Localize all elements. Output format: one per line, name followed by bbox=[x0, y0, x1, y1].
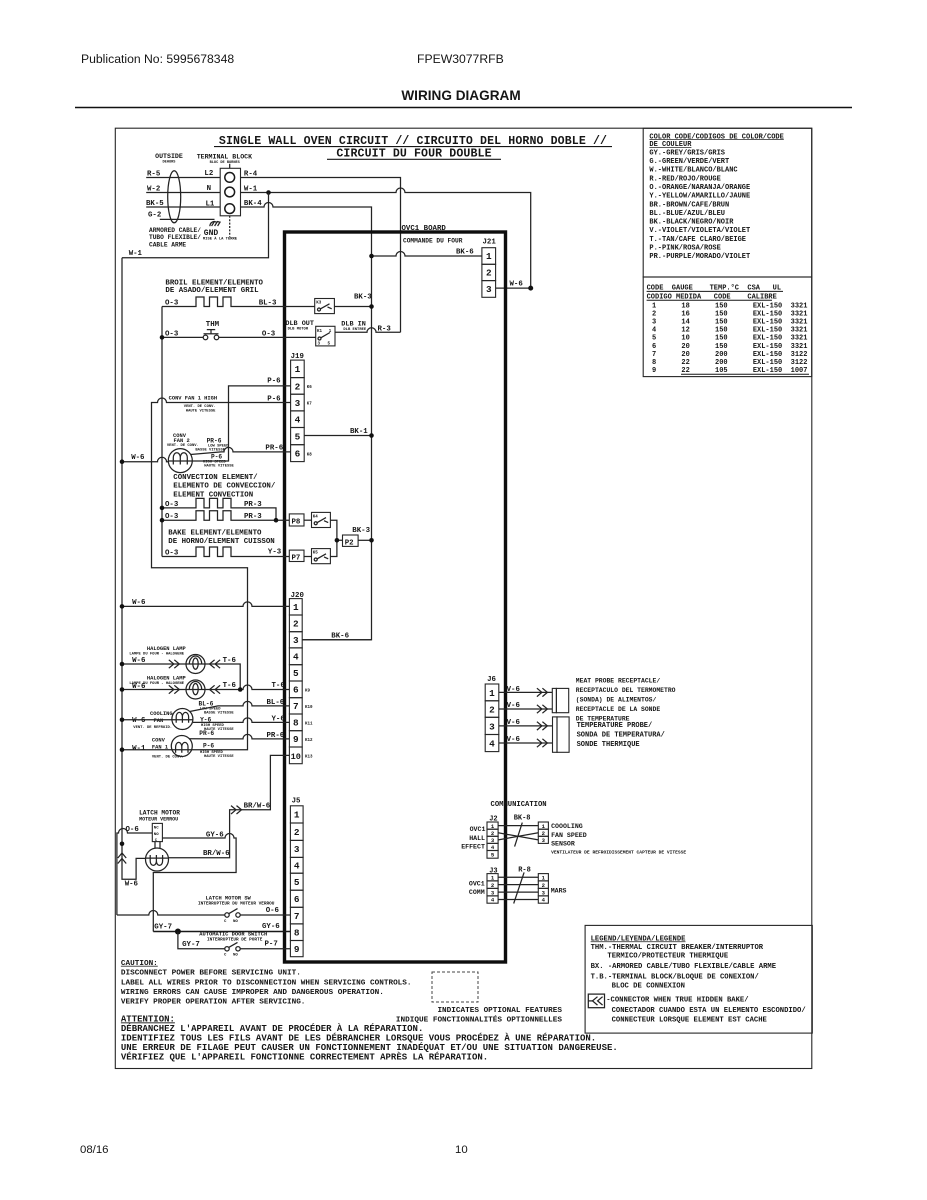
svg-text:K13: K13 bbox=[305, 756, 313, 760]
svg-text:R-8: R-8 bbox=[518, 866, 531, 874]
svg-text:HALOGEN LAMP: HALOGEN LAMP bbox=[147, 676, 186, 682]
J2 wires crossed bbox=[498, 825, 538, 827]
svg-text:HAUTE VITESSE: HAUTE VITESSE bbox=[204, 755, 234, 759]
wire P7 to K5 bbox=[304, 556, 312, 558]
MARS connector bbox=[538, 874, 548, 904]
motor latch bbox=[146, 848, 169, 871]
svg-text:LATCH MOTOR: LATCH MOTOR bbox=[139, 809, 180, 816]
temperature probe text bbox=[577, 722, 665, 749]
svg-text:3 14 150 EXL-15: 3 14 150 EXL-150 3321 bbox=[652, 319, 807, 327]
svg-text:BK-3: BK-3 bbox=[354, 293, 372, 301]
svg-text:G-2: G-2 bbox=[148, 212, 161, 220]
svg-text:9: 9 bbox=[294, 944, 300, 955]
BK-8 bundle slash bbox=[515, 823, 523, 847]
svg-text:VÉRIFIEZ QUE L'APPAREIL FONCTI: VÉRIFIEZ QUE L'APPAREIL FONCTIONNE CORRE… bbox=[121, 1052, 488, 1063]
svg-text:1 18 150 EXL-15: 1 18 150 EXL-150 3321 bbox=[652, 302, 807, 310]
svg-text:DE ASADO/ELEMENT GRIL: DE ASADO/ELEMENT GRIL bbox=[165, 287, 259, 295]
wire K4 to P2 junction bbox=[330, 520, 342, 540]
svg-text:2: 2 bbox=[293, 619, 299, 630]
wire W-6 cooling fan bbox=[122, 719, 172, 721]
svg-text:NC: NC bbox=[154, 826, 159, 830]
svg-text:LAMPE DU FOUR - HALOGENE: LAMPE DU FOUR - HALOGENE bbox=[129, 653, 184, 657]
svg-text:6: 6 bbox=[294, 894, 300, 905]
svg-text:CONV FAN 1 HIGH: CONV FAN 1 HIGH bbox=[169, 396, 218, 402]
svg-text:OVC1 BOARD: OVC1 BOARD bbox=[402, 225, 447, 233]
svg-text:7: 7 bbox=[294, 911, 300, 922]
optional features dashed box bbox=[432, 972, 478, 1002]
svg-text:MARS: MARS bbox=[551, 887, 567, 894]
svg-text:1: 1 bbox=[293, 602, 299, 613]
svg-text:2: 2 bbox=[294, 827, 300, 838]
connector chevrons lamp1 left bbox=[169, 660, 180, 668]
switch automatic door bbox=[225, 942, 240, 951]
svg-text:BASSE VITESSE: BASSE VITESSE bbox=[204, 712, 234, 716]
svg-text:(SONDA) DE ALIMENTOS/: (SONDA) DE ALIMENTOS/ bbox=[576, 696, 657, 703]
svg-text:UNE ERREUR DE FILAGE PEUT CAUS: UNE ERREUR DE FILAGE PEUT CAUSER UN FONC… bbox=[121, 1042, 618, 1053]
J3 wires bbox=[498, 876, 538, 878]
svg-text:1: 1 bbox=[489, 688, 495, 699]
svg-text:2: 2 bbox=[295, 381, 301, 392]
wire W rail left bbox=[122, 258, 146, 880]
svg-text:K7: K7 bbox=[307, 403, 313, 407]
svg-text:COLOR CODE/CODIGOS DE COLOR/CO: COLOR CODE/CODIGOS DE COLOR/CODE bbox=[649, 133, 783, 141]
cooling fan speed sensor connector bbox=[538, 822, 548, 843]
svg-text:DLB ENTREE: DLB ENTREE bbox=[343, 328, 367, 332]
svg-text:1: 1 bbox=[294, 810, 300, 821]
svg-text:VERIFY PROPER OPERATION AFTER: VERIFY PROPER OPERATION AFTER SERVICING. bbox=[121, 999, 306, 1007]
svg-text:3: 3 bbox=[293, 635, 299, 646]
svg-text:COOOLING: COOOLING bbox=[551, 823, 583, 830]
svg-text:T-6: T-6 bbox=[223, 657, 237, 665]
svg-text:BK.-BLACK/NEGRO/NOIR: BK.-BLACK/NEGRO/NOIR bbox=[649, 219, 734, 227]
svg-text:W-6: W-6 bbox=[510, 280, 524, 288]
svg-text:2 16 150 EXL-15: 2 16 150 EXL-150 3321 bbox=[652, 310, 807, 318]
svg-text:R.-RED/ROJO/ROUGE: R.-RED/ROJO/ROUGE bbox=[649, 175, 720, 183]
svg-text:DE HORNO/ELEMENT CUISSON: DE HORNO/ELEMENT CUISSON bbox=[168, 538, 274, 546]
svg-text:COMMUNICATION: COMMUNICATION bbox=[491, 801, 547, 809]
svg-text:DE COULEUR: DE COULEUR bbox=[649, 141, 692, 149]
wire lamp1 bbox=[122, 664, 240, 690]
svg-text:COOLING: COOLING bbox=[150, 711, 173, 717]
svg-text:OVC1: OVC1 bbox=[470, 826, 486, 833]
wire P8 to K4 bbox=[304, 519, 312, 521]
svg-text:O-6: O-6 bbox=[266, 907, 280, 915]
svg-text:-CONNECTOR WHEN TRUE HIDDEN BA: -CONNECTOR WHEN TRUE HIDDEN BAKE/ bbox=[606, 997, 748, 1005]
svg-text:BR/W-6: BR/W-6 bbox=[203, 850, 230, 858]
svg-text:4: 4 bbox=[489, 739, 495, 750]
svg-text:CONNECTEUR LORSQUE ELEMENT EST: CONNECTEUR LORSQUE ELEMENT EST CACHE bbox=[612, 1016, 768, 1024]
svg-text:ARMORED CABLE/: ARMORED CABLE/ bbox=[149, 227, 201, 234]
svg-text:T.-TAN/CAFE CLARO/BEIGE: T.-TAN/CAFE CLARO/BEIGE bbox=[649, 236, 746, 244]
svg-text:1: 1 bbox=[295, 364, 301, 375]
svg-text:BX. -ARMORED CABLE/TUBO FLEXIB: BX. -ARMORED CABLE/TUBO FLEXIBLE/CABLE A… bbox=[591, 963, 777, 971]
svg-text:TERMICO/PROTECTEUR THERMIQUE: TERMICO/PROTECTEUR THERMIQUE bbox=[607, 952, 728, 960]
svg-text:CAUTION:: CAUTION: bbox=[121, 960, 158, 968]
wire BK-1 J19 pin5 bbox=[304, 435, 371, 437]
connector chevrons lamp1 right bbox=[210, 660, 221, 668]
svg-text:K5: K5 bbox=[313, 552, 319, 556]
svg-text:FAN 2: FAN 2 bbox=[174, 438, 190, 444]
header rule bbox=[75, 107, 852, 109]
svg-text:K10: K10 bbox=[305, 706, 313, 710]
svg-text:L1: L1 bbox=[206, 200, 215, 208]
svg-text:P.-PINK/ROSA/ROSE: P.-PINK/ROSA/ROSE bbox=[649, 245, 720, 253]
svg-text:7: 7 bbox=[293, 701, 299, 712]
wire conv fan 1 high J19 pin3 bbox=[152, 398, 291, 750]
svg-text:DEHORS: DEHORS bbox=[163, 161, 177, 165]
broil element heater bbox=[162, 297, 315, 307]
wire W-1 conv fan 1 bbox=[122, 749, 172, 751]
wire K5 to P2 junction bbox=[330, 540, 337, 556]
svg-text:COMM: COMM bbox=[469, 889, 485, 896]
svg-text:GY.-GREY/GRIS/GRIS: GY.-GREY/GRIS/GRIS bbox=[649, 149, 725, 157]
svg-text:P7: P7 bbox=[292, 554, 301, 562]
svg-text:J5: J5 bbox=[292, 798, 301, 806]
svg-text:K12: K12 bbox=[305, 739, 313, 743]
svg-text:FAN: FAN bbox=[154, 718, 164, 724]
svg-text:VENT. DE REFROID.: VENT. DE REFROID. bbox=[133, 726, 172, 730]
svg-text:C: C bbox=[224, 954, 227, 958]
svg-text:J6: J6 bbox=[487, 676, 496, 684]
svg-text:W-1: W-1 bbox=[132, 745, 146, 753]
wire P2 to BK rail bbox=[358, 539, 371, 541]
svg-text:T-6: T-6 bbox=[223, 682, 237, 690]
meat probe receptacle bbox=[552, 688, 568, 712]
svg-text:BL.-BLUE/AZUL/BLEU: BL.-BLUE/AZUL/BLEU bbox=[649, 210, 725, 218]
svg-text:K8: K8 bbox=[307, 453, 313, 457]
svg-text:P-7: P-7 bbox=[265, 941, 278, 949]
svg-text:MEAT PROBE RECEPTACLE/: MEAT PROBE RECEPTACLE/ bbox=[576, 677, 661, 684]
svg-text:N: N bbox=[207, 185, 211, 193]
wire lamp2 bbox=[122, 689, 240, 691]
svg-text:3: 3 bbox=[486, 284, 492, 295]
svg-text:PR-6: PR-6 bbox=[207, 437, 222, 444]
svg-text:BK-8: BK-8 bbox=[514, 815, 531, 823]
svg-text:HAUTE VITESSE: HAUTE VITESSE bbox=[186, 410, 216, 414]
svg-text:GY-6: GY-6 bbox=[262, 923, 280, 931]
wire W-1 drop to left rail bbox=[122, 193, 269, 258]
svg-text:INDICATES OPTIONAL FEATURES: INDICATES OPTIONAL FEATURES bbox=[437, 1007, 562, 1015]
svg-text:SENSOR: SENSOR bbox=[551, 841, 575, 848]
armored cable BX ellipse bbox=[168, 171, 181, 223]
motor conv fan 1 bbox=[171, 736, 192, 757]
O rail bbox=[161, 307, 163, 557]
relay K5 bbox=[312, 549, 331, 564]
svg-text:THM: THM bbox=[206, 321, 220, 329]
svg-text:4 12 150 EXL-15: 4 12 150 EXL-150 3321 bbox=[652, 327, 807, 335]
svg-text:FAN SPEED: FAN SPEED bbox=[551, 832, 587, 839]
svg-text:RECEPTACULO DEL TERMOMETRO: RECEPTACULO DEL TERMOMETRO bbox=[576, 687, 676, 694]
wire gauge table box bbox=[643, 277, 812, 377]
svg-text:1: 1 bbox=[486, 251, 492, 262]
svg-text:3: 3 bbox=[295, 398, 301, 409]
svg-text:J21: J21 bbox=[483, 239, 497, 247]
svg-text:K4: K4 bbox=[313, 515, 319, 519]
svg-text:ELEMENTO DE CONVECCION/: ELEMENTO DE CONVECCION/ bbox=[173, 483, 276, 491]
svg-text:VENT. DE CONV.: VENT. DE CONV. bbox=[184, 405, 216, 409]
latch motor switch box bbox=[152, 823, 162, 848]
svg-text:5 10 150 EXL-15: 5 10 150 EXL-150 3321 bbox=[652, 335, 807, 343]
svg-text:6 20 150 EXL-15: 6 20 150 EXL-150 3321 bbox=[652, 343, 807, 351]
temperature probe receptacle bbox=[553, 717, 570, 752]
wire P-6 J19 pin2 to conv fan2 high bbox=[192, 386, 290, 461]
svg-text:5: 5 bbox=[294, 877, 300, 888]
svg-text:Y.-YELLOW/AMARILLO/JAUNE: Y.-YELLOW/AMARILLO/JAUNE bbox=[649, 193, 750, 201]
svg-text:W-1: W-1 bbox=[129, 250, 143, 258]
svg-text:SONDE THERMIQUE: SONDE THERMIQUE bbox=[577, 741, 640, 749]
svg-text:GY-7: GY-7 bbox=[182, 941, 200, 949]
svg-text:DLB MOTOR: DLB MOTOR bbox=[288, 328, 309, 332]
W-6 rail chevrons and connection bbox=[120, 842, 125, 847]
svg-text:NO: NO bbox=[233, 920, 238, 924]
svg-text:NO: NO bbox=[233, 954, 238, 958]
relay K4 bbox=[312, 512, 331, 527]
OVC1 board U1 bbox=[285, 232, 506, 962]
node W-1 junction bbox=[266, 190, 271, 195]
svg-text:8 22 200 EXL-15: 8 22 200 EXL-150 3122 bbox=[652, 359, 807, 367]
svg-text:VENT. DE CONV.: VENT. DE CONV. bbox=[167, 444, 199, 448]
svg-text:4: 4 bbox=[491, 897, 495, 904]
svg-text:DISCONNECT POWER BEFORE SERVIC: DISCONNECT POWER BEFORE SERVICING UNIT. bbox=[121, 970, 301, 978]
svg-text:5: 5 bbox=[295, 432, 301, 443]
svg-text:G.-GREEN/VERDE/VERT: G.-GREEN/VERDE/VERT bbox=[649, 158, 729, 166]
svg-text:3: 3 bbox=[489, 722, 495, 733]
wire W-6 to conv fan 2 bbox=[122, 457, 168, 462]
svg-text:BL-6: BL-6 bbox=[199, 700, 214, 707]
svg-text:O.-ORANGE/NARANJA/ORANGE: O.-ORANGE/NARANJA/ORANGE bbox=[649, 184, 750, 192]
svg-text:PR-6: PR-6 bbox=[199, 730, 214, 737]
connector P8 bbox=[289, 514, 304, 526]
svg-text:WIRING ERRORS CAN CAUSE IMPROP: WIRING ERRORS CAN CAUSE IMPROPER AND DAN… bbox=[121, 989, 384, 997]
svg-text:T.B.-TERMINAL BLOCK/BLOQUE DE: T.B.-TERMINAL BLOCK/BLOQUE DE CONEXION/ bbox=[591, 973, 759, 981]
svg-text:P8: P8 bbox=[292, 519, 301, 527]
svg-text:OVC1: OVC1 bbox=[469, 880, 485, 887]
svg-text:5: 5 bbox=[293, 668, 299, 679]
svg-text:INTERRUPTEUR DE PORTE: INTERRUPTEUR DE PORTE bbox=[207, 938, 263, 943]
svg-text:INDIQUE FONCTIONNALITÉS OPTION: INDIQUE FONCTIONNALITÉS OPTIONNELLES bbox=[396, 1016, 562, 1025]
svg-text:DÉBRANCHEZ L'APPAREIL AVANT DE: DÉBRANCHEZ L'APPAREIL AVANT DE PROCÉDER … bbox=[121, 1023, 423, 1034]
svg-text:W.-WHITE/BLANCO/BLANC: W.-WHITE/BLANCO/BLANC bbox=[649, 167, 737, 175]
svg-text:TUBO FLEXIBLE/: TUBO FLEXIBLE/ bbox=[149, 234, 201, 241]
svg-text:9: 9 bbox=[293, 734, 299, 745]
wire BK-6 J20 pin3 to P2 rail bbox=[302, 639, 371, 641]
svg-text:LABEL ALL WIRES PRIOR TO DISCO: LABEL ALL WIRES PRIOR TO DISCONNECTION W… bbox=[121, 979, 412, 987]
connector P2 bbox=[343, 535, 359, 546]
svg-text:WIRING DIAGRAM: WIRING DIAGRAM bbox=[401, 88, 520, 103]
svg-text:AUTOMATIC DOOR SWITCH: AUTOMATIC DOOR SWITCH bbox=[199, 931, 267, 937]
svg-text:RECEPTACLE DE LA SONDE: RECEPTACLE DE LA SONDE bbox=[576, 706, 661, 713]
svg-text:MOTEUR VERROU: MOTEUR VERROU bbox=[139, 816, 178, 822]
svg-text:TERMINAL BLOCK: TERMINAL BLOCK bbox=[197, 154, 252, 161]
ground symbol bbox=[210, 221, 221, 226]
switch latch motor SW bbox=[225, 909, 240, 918]
svg-text:HAUTE VITESSE: HAUTE VITESSE bbox=[204, 465, 234, 469]
color code legend box bbox=[643, 128, 812, 277]
svg-text:SONDA DE TEMPERATURA/: SONDA DE TEMPERATURA/ bbox=[577, 731, 665, 739]
svg-text:IDENTIFIEZ TOUS LES FILS AVANT: IDENTIFIEZ TOUS LES FILS AVANT DE LES DÉ… bbox=[121, 1033, 596, 1044]
svg-text:4: 4 bbox=[295, 415, 301, 426]
svg-text:LEGEND/LEYENDA/LEGENDE: LEGEND/LEYENDA/LEGENDE bbox=[591, 935, 687, 943]
svg-text:MISE À LA TERRE: MISE À LA TERRE bbox=[203, 236, 238, 241]
svg-text:CONECTADOR CUANDO ESTA UN ELEM: CONECTADOR CUANDO ESTA UN ELEMENTO ESCON… bbox=[612, 1007, 806, 1015]
svg-text:TEMPERATURE PROBE/: TEMPERATURE PROBE/ bbox=[577, 722, 653, 730]
svg-text:6: 6 bbox=[293, 685, 299, 696]
svg-text:K1: K1 bbox=[317, 330, 323, 334]
svg-text:P2: P2 bbox=[345, 539, 354, 547]
halogen lamp 1 bbox=[186, 655, 205, 674]
svg-text:2: 2 bbox=[489, 705, 495, 716]
svg-text:8: 8 bbox=[294, 927, 300, 938]
connector chevrons lamp2 left bbox=[169, 685, 180, 693]
svg-text:08/16: 08/16 bbox=[80, 1144, 109, 1156]
svg-text:W-6: W-6 bbox=[125, 880, 139, 888]
diagram outer frame bbox=[115, 128, 812, 1068]
svg-text:EFFECT: EFFECT bbox=[461, 843, 485, 850]
svg-text:LATCH MOTOR SW: LATCH MOTOR SW bbox=[206, 895, 252, 901]
svg-text:Publication No: 5995678348: Publication No: 5995678348 bbox=[81, 52, 234, 66]
connector chevrons lamp2 right bbox=[210, 685, 221, 693]
svg-text:4: 4 bbox=[542, 897, 546, 904]
svg-text:ATTENTION:: ATTENTION: bbox=[121, 1014, 175, 1024]
svg-text:PR.-PURPLE/MORADO/VIOLET: PR.-PURPLE/MORADO/VIOLET bbox=[649, 253, 750, 261]
svg-text:6: 6 bbox=[295, 448, 301, 459]
svg-text:BLOC DE CONNEXION: BLOC DE CONNEXION bbox=[612, 983, 685, 991]
svg-text:L2: L2 bbox=[204, 170, 213, 178]
svg-text:NO: NO bbox=[154, 833, 159, 837]
relay K3 bbox=[315, 299, 335, 314]
svg-text:BLOC DE BORNES: BLOC DE BORNES bbox=[210, 161, 241, 165]
svg-text:K11: K11 bbox=[305, 723, 313, 727]
halogen lamp 2 bbox=[186, 680, 205, 699]
svg-text:CIRCUIT DU FOUR DOUBLE: CIRCUIT DU FOUR DOUBLE bbox=[336, 147, 491, 160]
svg-text:V.-VIOLET/VIOLETA/VIOLET: V.-VIOLET/VIOLETA/VIOLET bbox=[649, 227, 750, 235]
svg-text:INTERRUPTEUR DU MOTEUR VERROU: INTERRUPTEUR DU MOTEUR VERROU bbox=[198, 902, 275, 907]
motor conv fan 2 bbox=[168, 449, 192, 473]
R-8 bundle slash bbox=[514, 872, 524, 903]
svg-text:K9: K9 bbox=[305, 689, 311, 693]
svg-text:BK-3: BK-3 bbox=[352, 527, 370, 535]
svg-text:C: C bbox=[224, 920, 227, 924]
svg-text:DLB OUT: DLB OUT bbox=[285, 320, 314, 328]
svg-text:OUTSIDE: OUTSIDE bbox=[155, 153, 183, 160]
svg-text:HALL: HALL bbox=[469, 835, 485, 842]
svg-text:CONVECTION ELEMENT/: CONVECTION ELEMENT/ bbox=[173, 474, 258, 482]
svg-text:GY-7: GY-7 bbox=[154, 924, 172, 932]
svg-text:4: 4 bbox=[294, 861, 300, 872]
svg-text:K3: K3 bbox=[316, 302, 322, 306]
svg-text:7 20 200 EXL-15: 7 20 200 EXL-150 3122 bbox=[652, 351, 807, 359]
svg-text:BK-6: BK-6 bbox=[456, 248, 474, 256]
wire W-6 to J20 pin1 bbox=[122, 602, 289, 606]
svg-text:VENTILATEUR DE REFROIDISSEMENT: VENTILATEUR DE REFROIDISSEMENT CAPTEUR D… bbox=[551, 849, 686, 855]
svg-text:10: 10 bbox=[455, 1144, 468, 1156]
caution text bbox=[121, 960, 412, 1007]
svg-text:CONV: CONV bbox=[152, 738, 166, 744]
svg-text:Y-3: Y-3 bbox=[268, 549, 282, 557]
svg-text:P-6: P-6 bbox=[203, 743, 214, 750]
svg-text:HALOGEN LAMP: HALOGEN LAMP bbox=[147, 646, 186, 652]
svg-text:4: 4 bbox=[293, 652, 299, 663]
svg-text:W-6: W-6 bbox=[132, 717, 146, 725]
svg-text:THM.-THERMAL CIRCUIT BREAKER/I: THM.-THERMAL CIRCUIT BREAKER/INTERRUPTOR bbox=[591, 944, 764, 952]
legend box bbox=[585, 925, 812, 1033]
connector chevrons BR/W-6 bbox=[231, 806, 242, 814]
svg-text:K6: K6 bbox=[307, 386, 313, 390]
svg-text:3: 3 bbox=[294, 844, 300, 855]
svg-text:2: 2 bbox=[486, 268, 492, 279]
svg-text:5: 5 bbox=[491, 852, 495, 859]
svg-text:COMMANDE DU FOUR: COMMANDE DU FOUR bbox=[403, 237, 463, 244]
svg-text:8: 8 bbox=[293, 718, 299, 729]
svg-text:BAKE ELEMENT/ELEMENTO: BAKE ELEMENT/ELEMENTO bbox=[168, 529, 262, 537]
svg-text:CABLE ARME: CABLE ARME bbox=[149, 242, 186, 249]
svg-text:FPEW3077RFB: FPEW3077RFB bbox=[417, 52, 504, 66]
legend hidden-bake connector symbol bbox=[588, 994, 604, 1008]
svg-text:SINGLE WALL OVEN CIRCUIT // CI: SINGLE WALL OVEN CIRCUIT // CIRCUITO DEL… bbox=[219, 135, 607, 148]
svg-text:P-6: P-6 bbox=[267, 377, 281, 385]
svg-text:W-6: W-6 bbox=[131, 454, 145, 462]
motor cooling fan bbox=[172, 709, 193, 730]
connector P7 bbox=[289, 550, 304, 561]
terminal block TB bbox=[220, 168, 240, 216]
attention text bbox=[121, 1014, 618, 1062]
svg-text:10: 10 bbox=[291, 752, 301, 762]
meat probe text bbox=[576, 677, 676, 722]
svg-text:BR.-BROWN/CAFE/BRUN: BR.-BROWN/CAFE/BRUN bbox=[649, 201, 729, 209]
